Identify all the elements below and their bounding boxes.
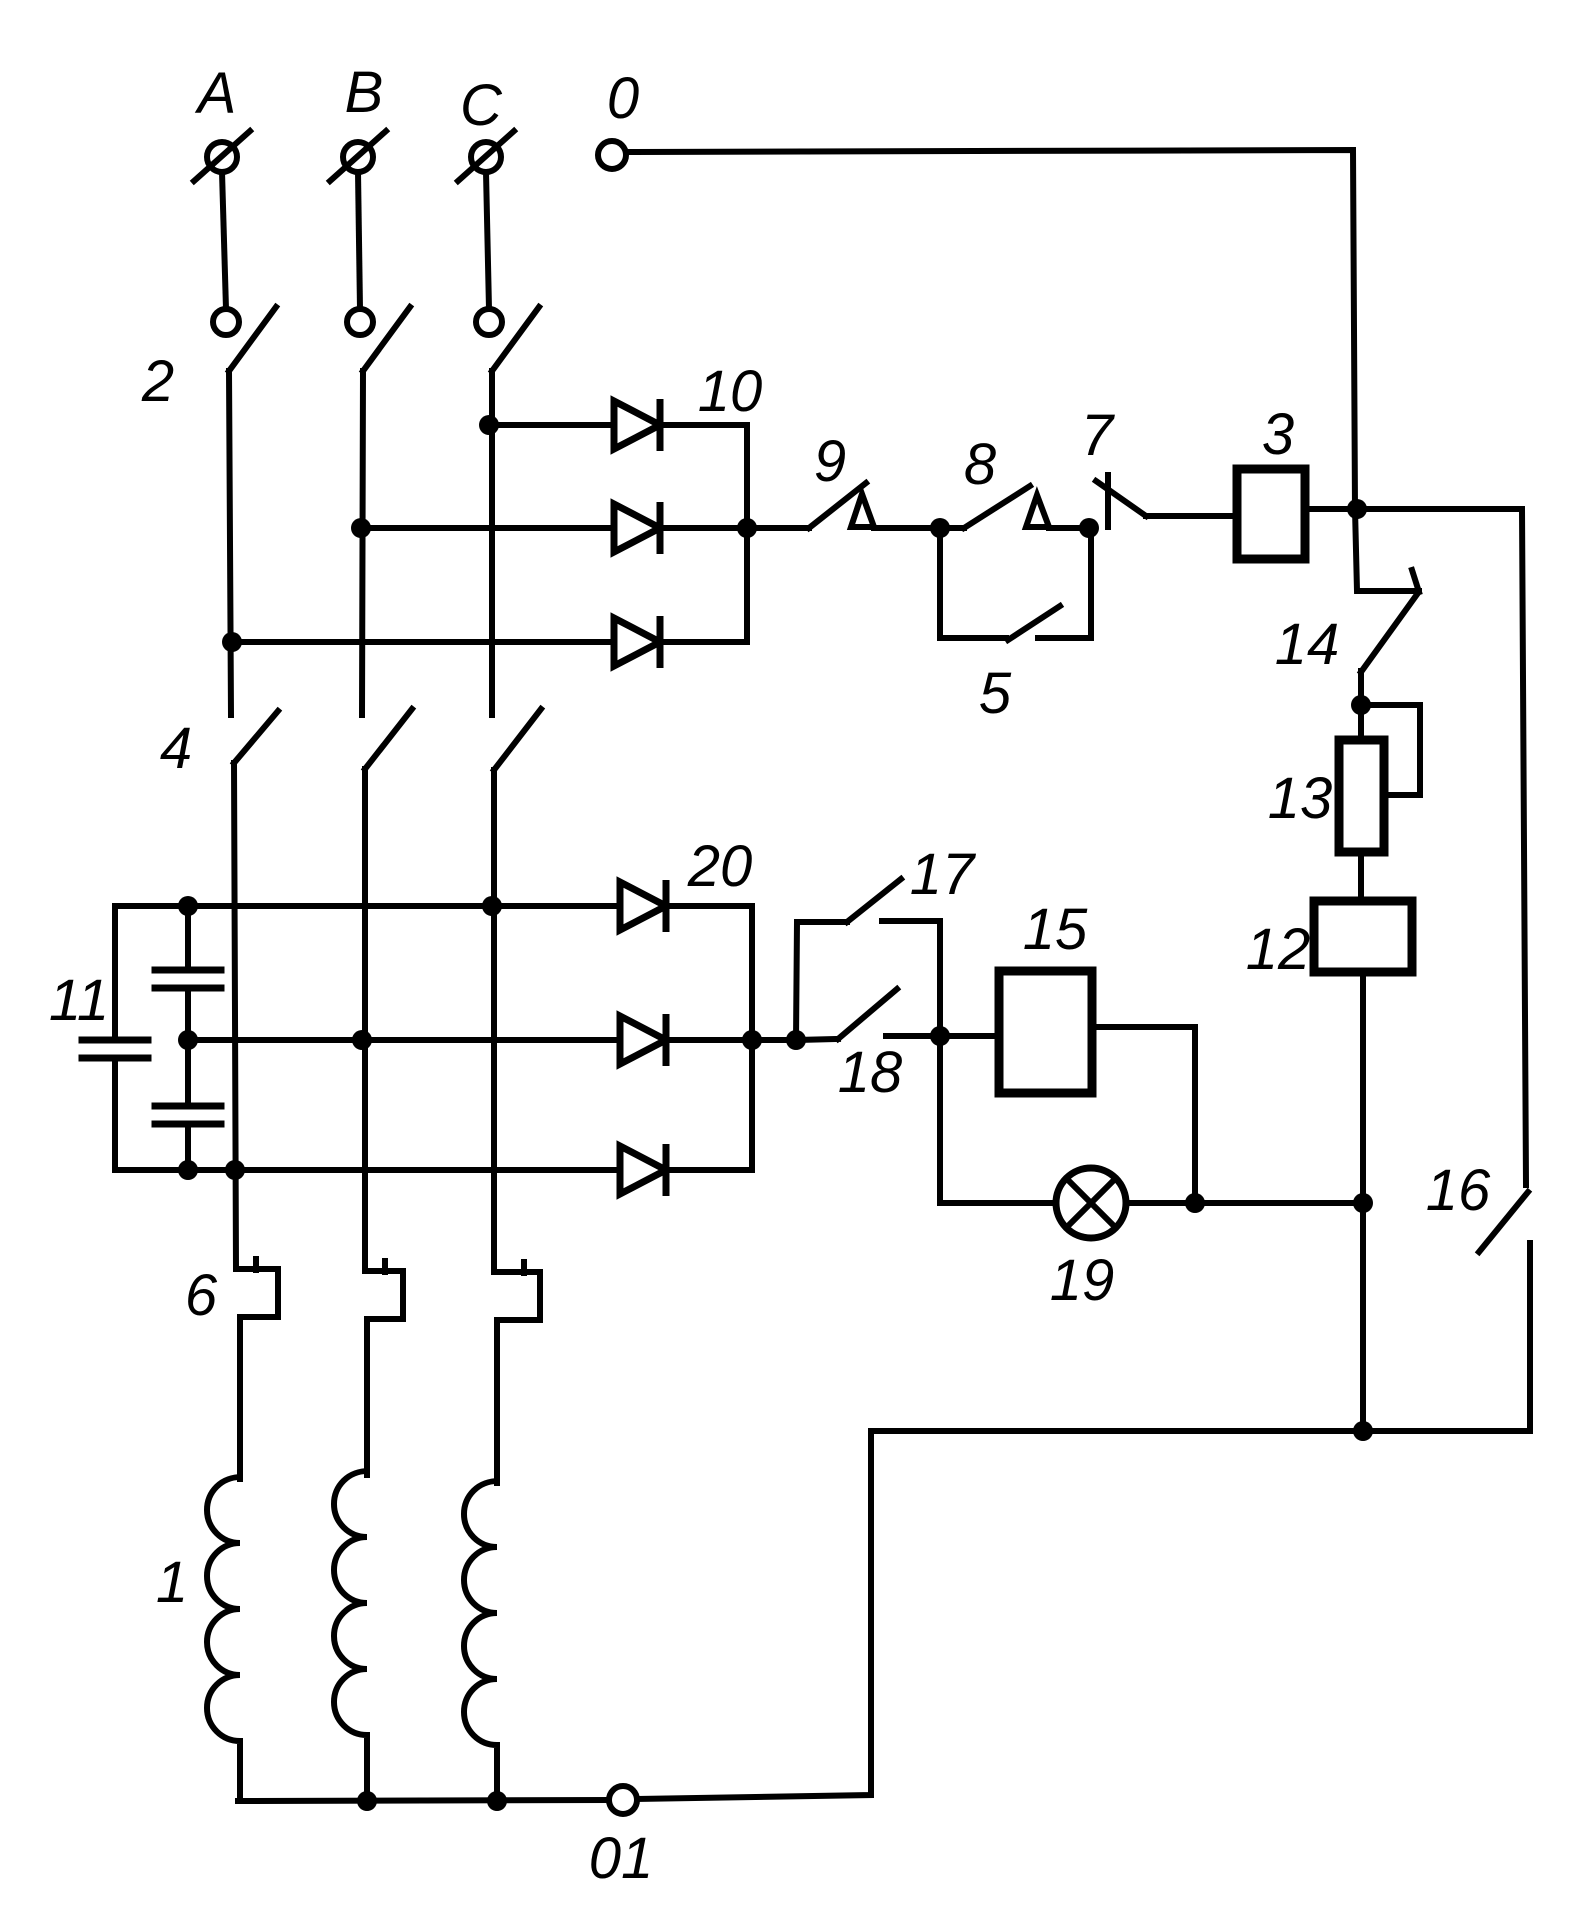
wire lamp branch: [940, 1036, 1056, 1203]
wire row20 top: [115, 903, 620, 909]
relay 3: [1237, 469, 1305, 559]
node cap row20 bottom: [178, 1160, 198, 1180]
diode 10a: [614, 399, 660, 451]
terminal B: [330, 131, 386, 181]
wire row20 top right: [666, 903, 752, 909]
capacitor 11 mid branch upper: [155, 906, 221, 1040]
node lamp-15: [1185, 1193, 1205, 1213]
wire 12 down: [1360, 972, 1366, 1431]
lamp 19: [1056, 1168, 1126, 1238]
wire 8-7: [1049, 525, 1089, 531]
wire 15 out: [1092, 1027, 1195, 1203]
switch 17: [796, 879, 940, 1040]
wire 01 right: [637, 1431, 1530, 1799]
coil 1 pole A: [207, 1477, 240, 1800]
svg-text:0: 0: [607, 66, 639, 131]
svg-text:10: 10: [698, 359, 763, 424]
node cap row20 mid: [178, 1030, 198, 1050]
node A row10: [222, 632, 242, 652]
node cap row20 top: [178, 896, 198, 916]
wire A mid: [229, 371, 231, 715]
wire 13-12: [1358, 852, 1364, 901]
svg-text:12: 12: [1246, 917, 1311, 982]
terminal C: [458, 131, 514, 181]
wire row10 bottom: [232, 639, 614, 645]
node lamp-12: [1353, 1193, 1373, 1213]
svg-text:4: 4: [160, 716, 192, 781]
switch 7: [1096, 475, 1146, 527]
svg-text:16: 16: [1426, 1158, 1491, 1223]
diode 10c: [614, 616, 660, 668]
capacitor 11 mid branch lower: [155, 1040, 221, 1170]
wire row20 mid: [188, 1037, 620, 1043]
wire row10 bottom right: [660, 639, 747, 645]
fuse 6 pole B: [365, 1271, 403, 1475]
node 17/18: [786, 1030, 806, 1050]
relay 12: [1314, 901, 1412, 972]
wire row10 top right: [660, 422, 747, 428]
svg-text:11: 11: [49, 968, 109, 1033]
node B bottom: [357, 1791, 377, 1811]
diode 20b: [620, 1014, 666, 1066]
svg-text:3: 3: [1262, 402, 1294, 467]
wire 9-8: [874, 525, 964, 531]
wire to switch 9: [747, 525, 809, 531]
switch 14: [1355, 509, 1419, 740]
wire 7-3: [1146, 513, 1237, 519]
node 14-13: [1351, 695, 1371, 715]
node B row10: [351, 518, 371, 538]
wire row10 mid right: [660, 525, 747, 531]
wire row10 top: [489, 422, 614, 428]
switch 8: [964, 486, 1049, 528]
node C row10: [479, 415, 499, 435]
switch 2 pole B: [347, 307, 410, 371]
node 5 right: [1079, 518, 1099, 538]
bus 20: [749, 906, 755, 1170]
svg-text:9: 9: [814, 429, 846, 494]
wire C mid: [489, 371, 495, 715]
svg-text:1: 1: [156, 1550, 188, 1615]
node bus20: [742, 1030, 762, 1050]
node O-3: [1347, 499, 1367, 519]
coil 1 pole B: [334, 1471, 367, 1800]
node bus10: [737, 518, 757, 538]
fuse 6 pole C: [494, 1272, 540, 1483]
node A row20 bottom: [225, 1160, 245, 1180]
diode 20a: [620, 880, 666, 932]
wire row10 mid: [361, 525, 614, 531]
switch 2 pole A: [213, 307, 276, 371]
svg-text:7: 7: [1081, 403, 1116, 468]
node C bottom: [487, 1791, 507, 1811]
switch 2 pole C: [476, 307, 539, 371]
wire A upper: [222, 172, 226, 309]
wire bottom motor: [238, 1800, 609, 1801]
wire O top: [626, 150, 1355, 509]
diode 10b: [614, 502, 660, 554]
wire bus20-node: [752, 1037, 796, 1043]
switch 9: [809, 483, 874, 528]
switch 4 pole C: [494, 709, 541, 770]
wire lamp right: [1126, 1200, 1363, 1206]
svg-text:19: 19: [1050, 1248, 1115, 1313]
svg-text:6: 6: [185, 1263, 218, 1328]
switch 5 bypass: [940, 528, 1091, 640]
switch 4 pole B: [365, 709, 412, 769]
wire A lower: [234, 763, 236, 1269]
svg-text:17: 17: [910, 842, 977, 907]
bus 10: [744, 425, 750, 642]
coil 1 pole C: [464, 1481, 497, 1800]
wire row20 bottom right: [666, 1167, 752, 1173]
node 12 bottom: [1353, 1421, 1373, 1441]
wire B lower: [362, 769, 368, 1271]
svg-text:18: 18: [838, 1040, 903, 1105]
svg-text:8: 8: [964, 432, 996, 497]
fuse 6 pole A: [236, 1269, 278, 1479]
node 15 in: [930, 1026, 950, 1046]
wire B upper: [358, 172, 360, 309]
wire C upper: [486, 172, 489, 309]
wire B mid: [362, 371, 363, 715]
wire row20 bottom: [115, 1167, 620, 1173]
svg-text:13: 13: [1268, 766, 1333, 831]
wire 3 right: [1305, 509, 1526, 1185]
svg-text:15: 15: [1023, 897, 1088, 962]
diode 20c: [620, 1144, 666, 1196]
wire row20 mid right: [666, 1037, 752, 1043]
wire 13 bypass: [1361, 705, 1420, 795]
capacitor 11 left branch: [82, 906, 148, 1170]
svg-text:C: C: [460, 73, 503, 138]
terminal O: [598, 141, 626, 169]
svg-text:14: 14: [1275, 612, 1340, 677]
terminal 01: [609, 1786, 637, 1814]
svg-text:A: A: [195, 61, 237, 126]
node B row20 mid: [352, 1030, 372, 1050]
switch 16: [1479, 1192, 1530, 1431]
wire C lower: [491, 770, 497, 1272]
node C row20 top: [482, 896, 502, 916]
switch 18: [796, 989, 999, 1040]
svg-text:5: 5: [979, 661, 1012, 726]
node 5 left: [930, 518, 950, 538]
svg-text:01: 01: [589, 1826, 654, 1891]
relay 15: [999, 971, 1092, 1093]
resistor 13: [1339, 740, 1384, 852]
switch 4 pole A: [234, 711, 278, 763]
svg-text:20: 20: [687, 834, 753, 899]
svg-text:2: 2: [141, 349, 174, 414]
terminal A: [194, 131, 250, 181]
svg-text:B: B: [345, 60, 384, 125]
